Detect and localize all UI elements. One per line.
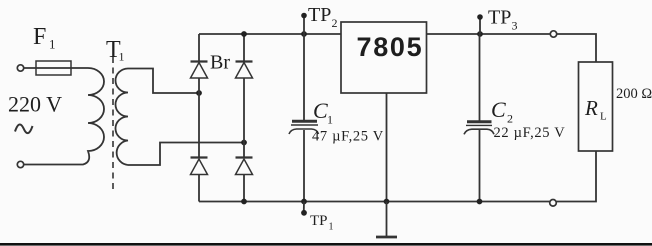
transformer T1 core <box>112 57 114 192</box>
svg-text:TP: TP <box>308 4 331 26</box>
test point TP2 dot <box>301 13 307 19</box>
label T1 <box>106 37 125 64</box>
test point TP3 stub <box>479 18 481 34</box>
svg-text:TP: TP <box>488 7 511 29</box>
svg-text:Br: Br <box>210 52 230 74</box>
label Br <box>210 52 230 74</box>
capacitor C1 lead bottom <box>303 130 305 202</box>
label 200 ohm <box>616 86 652 102</box>
resistor RL <box>579 62 613 151</box>
junction: right rail / top rail <box>241 31 247 37</box>
label TP1 <box>310 213 334 232</box>
label 22 uF,25 V <box>494 125 566 141</box>
svg-text:F: F <box>33 24 46 50</box>
wire: secondary top to bridge AC input node <box>128 69 199 94</box>
capacitor C1 plates <box>289 121 319 134</box>
junction: 7805 ground pin / bottom rail <box>384 199 390 205</box>
capacitor C2 plates <box>464 122 494 135</box>
transformer T1 secondary winding <box>116 69 129 166</box>
svg-text:C: C <box>491 97 506 122</box>
wire: secondary bottom to bridge AC input node <box>128 143 244 166</box>
wire: bridge right rail <box>243 34 245 202</box>
fuse F1 <box>36 61 71 75</box>
svg-text:1: 1 <box>327 113 333 127</box>
test point TP1 stub <box>303 202 305 212</box>
label RL <box>584 96 607 123</box>
junction: C2 / bottom rail <box>477 199 483 205</box>
svg-text:7805: 7805 <box>357 32 424 62</box>
diode D3 (bridge, bottom-left) <box>191 158 208 175</box>
svg-text:L: L <box>600 111 607 123</box>
svg-text:1: 1 <box>49 37 56 52</box>
svg-text:47 µF,25 V: 47 µF,25 V <box>312 129 384 145</box>
junction: C2, TP3 / output wire <box>477 31 483 37</box>
junction: secondary bottom / right rail <box>241 140 247 146</box>
wire: bottom (ground) rail <box>199 151 596 202</box>
svg-text:R: R <box>584 96 598 120</box>
wire: AC bottom terminal to transformer primary <box>24 164 78 166</box>
wire: regulator output to load <box>427 34 597 62</box>
label TP2 <box>308 4 338 30</box>
svg-text:3: 3 <box>512 19 518 33</box>
wire: bridge left rail <box>198 34 200 202</box>
svg-text:22 µF,25 V: 22 µF,25 V <box>494 125 566 141</box>
junction: right rail / bottom rail <box>241 199 247 205</box>
capacitor C2 lead top <box>479 34 481 121</box>
wire: positive top rail from bridge to regulator input <box>199 33 341 35</box>
wire: 7805 ground pin down to bottom rail <box>386 93 388 202</box>
label F1 <box>33 24 56 52</box>
terminal: AC input bottom <box>17 161 23 167</box>
svg-text:C: C <box>313 98 328 123</box>
label C1 <box>313 98 333 127</box>
svg-text:1: 1 <box>119 50 125 64</box>
label 220 V <box>8 92 62 117</box>
capacitor C1 lead top <box>303 34 305 120</box>
label 47 uF,25 V <box>312 129 384 145</box>
svg-text:220 V: 220 V <box>8 92 62 117</box>
svg-text:200 Ω: 200 Ω <box>616 86 652 102</box>
ground <box>376 202 397 238</box>
label TP3 <box>488 7 518 33</box>
terminal: output top <box>550 31 556 37</box>
AC source symbol ~ <box>15 124 33 133</box>
transformer T1 primary winding <box>78 68 104 165</box>
wire: AC top terminal through fuse to transformer primary <box>24 67 88 69</box>
svg-text:TP: TP <box>310 213 328 229</box>
svg-text:2: 2 <box>332 16 338 30</box>
capacitor C2 lead bottom <box>479 130 481 202</box>
test point TP3 dot <box>477 14 483 20</box>
test point TP2 stub <box>303 16 305 34</box>
junction: C1, TP2 / top rail <box>301 31 307 37</box>
diode D1 (bridge, top-left) <box>191 62 208 79</box>
svg-text:1: 1 <box>329 222 334 233</box>
junction: C1, TP1 / bottom rail <box>301 199 307 205</box>
label C2 <box>491 97 513 126</box>
label 7805 <box>357 32 424 62</box>
diode D2 (bridge, top-right) <box>236 62 253 79</box>
test point TP1 dot <box>301 210 307 216</box>
terminal: AC input top <box>17 65 23 71</box>
junction: secondary top / left rail <box>196 90 202 96</box>
terminal: output bottom <box>550 200 557 207</box>
svg-text:2: 2 <box>507 112 513 126</box>
voltage regulator U1 7805 <box>341 22 427 93</box>
diode D4 (bridge, bottom-right) <box>236 158 253 175</box>
